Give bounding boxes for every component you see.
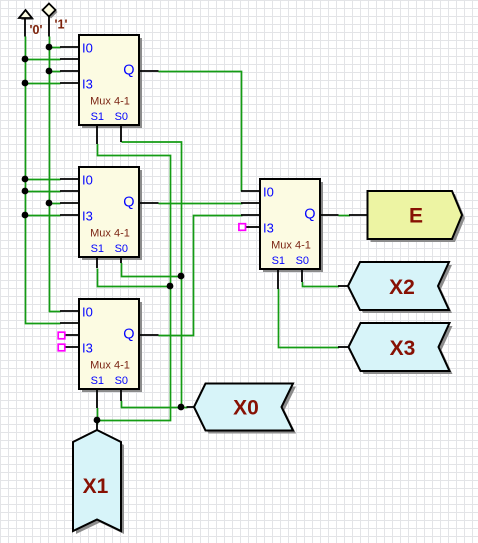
U1 output pin stub Q — [138, 70, 159, 72]
constant '1' lead wire (black) — [48, 17, 50, 37]
port E stub wire (black) — [349, 214, 368, 216]
svg-text:I0: I0 — [82, 173, 93, 188]
constant '0' symbol (triangle) shadow — [21, 12, 34, 20]
wire net X3 (U4.S1 to port X3) — [279, 289, 340, 348]
svg-text:I3: I3 — [82, 209, 93, 224]
svg-text:I0: I0 — [82, 305, 93, 320]
input port X2 — [348, 262, 449, 310]
constant '0' symbol (triangle) — [19, 10, 32, 18]
svg-text:Mux 4-1: Mux 4-1 — [90, 360, 130, 372]
svg-text:S0: S0 — [115, 243, 128, 255]
U4 input pin stubs I0,I1,I2 — [241, 191, 261, 215]
svg-text:S0: S0 — [296, 255, 309, 267]
svg-text:S1: S1 — [272, 255, 285, 267]
U4 select pin stub S0 — [301, 268, 303, 282]
svg-text:'0': '0' — [30, 23, 43, 37]
svg-text:I0: I0 — [263, 185, 274, 200]
junction U3.S1/net X1 at port X1 — [94, 417, 101, 424]
U1 input pin stubs I0-I3 — [60, 47, 80, 83]
U4 open pin marker I3 — [239, 224, 246, 231]
junction U2.I1/'0' rail — [22, 188, 29, 195]
U3 open pin marker I2 — [58, 332, 65, 339]
mux U3 shadow — [82, 302, 142, 392]
output port E — [368, 191, 463, 239]
svg-text:X0: X0 — [233, 397, 259, 420]
constant '1' symbol (diamond) shadow — [45, 6, 58, 19]
output port E shadow — [371, 194, 466, 242]
input port X3 shadow — [352, 326, 453, 374]
svg-text:I0: I0 — [82, 41, 93, 56]
U3 open pin marker I3 — [58, 344, 65, 351]
svg-text:Q: Q — [123, 327, 134, 343]
U2 select pin stub S1 — [96, 256, 98, 268]
wire net X2 (U4.S0 to port X2) — [303, 282, 340, 287]
port X1 stub wire (black) — [96, 423, 98, 430]
wire net U3.Q to U4.I2 — [159, 216, 243, 336]
svg-text:Mux 4-1: Mux 4-1 — [90, 228, 130, 240]
U3 input pin stubs I0,I1 — [60, 311, 80, 323]
U2 select pin stub S0 — [120, 256, 122, 263]
wire net X0 (U1.S0, U2.S0, U3.S0 to port X0) — [122, 142, 188, 408]
U3 output pin stub Q — [138, 334, 159, 336]
input port X0 shadow — [197, 387, 296, 434]
port X3 stub wire (black) — [338, 346, 350, 348]
wire net U2.Q to U4.I1 — [159, 203, 243, 205]
svg-text:Q: Q — [304, 207, 315, 223]
U1 select pin stub S1 — [96, 124, 98, 144]
U4 unconnected pin stub I3 — [246, 226, 261, 228]
mux U2 shadow — [82, 170, 142, 260]
svg-text:S0: S0 — [115, 375, 128, 387]
U2 input pin stubs I0-I3 — [60, 179, 80, 215]
wire net '1' (vertical rail and taps to U1,U2,U3 inputs) — [50, 37, 61, 312]
svg-text:Mux 4-1: Mux 4-1 — [271, 240, 311, 252]
svg-text:E: E — [409, 205, 423, 228]
input port X1 — [73, 430, 121, 531]
port X0 stub wire (black) — [187, 406, 195, 408]
mux U4 shadow — [263, 182, 323, 272]
junction U2.I3/'0' rail — [22, 212, 29, 219]
svg-text:S0: S0 — [115, 111, 128, 123]
constant '0' lead wire (black) — [24, 18, 26, 37]
junction U1.I1/'0' rail — [22, 56, 29, 63]
svg-text:S1: S1 — [91, 243, 104, 255]
mux U4 body — [260, 179, 320, 269]
input port X3 — [349, 323, 450, 371]
svg-text:Q: Q — [123, 195, 134, 211]
U4 output pin stub Q — [319, 214, 339, 216]
svg-text:Mux 4-1: Mux 4-1 — [90, 96, 130, 108]
U3 unconnected pin stubs I2,I3 — [65, 335, 80, 347]
junction U1.I3/'0' rail — [22, 80, 29, 87]
port X2 stub wire (black) — [338, 285, 349, 287]
input port X0 — [194, 384, 293, 431]
svg-text:I3: I3 — [82, 77, 93, 92]
U4 select pin stub S1 — [277, 268, 279, 289]
wire net '0' (vertical rail and taps to U1,U2,U3 inputs) — [26, 37, 61, 324]
mux U2 body — [79, 167, 139, 257]
wire net X1 (U1.S1, U2.S1, U3.S1 to port X1) — [98, 144, 171, 425]
junction U3.S0/net X0 at port X0 — [178, 404, 185, 411]
junction U1.I0/'1' rail — [46, 44, 53, 51]
U3 select pin stub S1 — [96, 388, 98, 408]
mux U3 body — [79, 299, 139, 389]
svg-text:I3: I3 — [82, 341, 93, 356]
svg-text:X3: X3 — [390, 337, 416, 360]
wire net U1.Q to U4.I0 — [159, 72, 242, 192]
svg-text:Q: Q — [123, 63, 134, 79]
U1 select pin stub S0 — [120, 124, 122, 142]
constant '1' symbol (diamond) — [43, 4, 56, 17]
junction U2.S1/net X1 — [167, 283, 174, 290]
input port X2 shadow — [351, 265, 452, 313]
junction U2.I0/'0' rail — [22, 176, 29, 183]
svg-text:'1': '1' — [55, 18, 68, 32]
svg-text:S1: S1 — [91, 111, 104, 123]
input port X1 shadow — [76, 433, 124, 534]
svg-text:I3: I3 — [263, 221, 274, 236]
junction U1.I2/'1' rail — [46, 68, 53, 75]
mux U1 shadow — [82, 38, 142, 128]
svg-text:X1: X1 — [83, 475, 109, 498]
U2 output pin stub Q — [138, 202, 159, 204]
U3 select pin stub S0 — [120, 388, 122, 401]
wire net U4.Q to port E — [339, 215, 351, 217]
junction U2.S0/net X0 — [178, 273, 185, 280]
mux U1 body — [79, 35, 139, 125]
svg-text:X2: X2 — [389, 276, 415, 299]
svg-text:S1: S1 — [91, 375, 104, 387]
junction U2.I2/'1' rail — [46, 200, 53, 207]
